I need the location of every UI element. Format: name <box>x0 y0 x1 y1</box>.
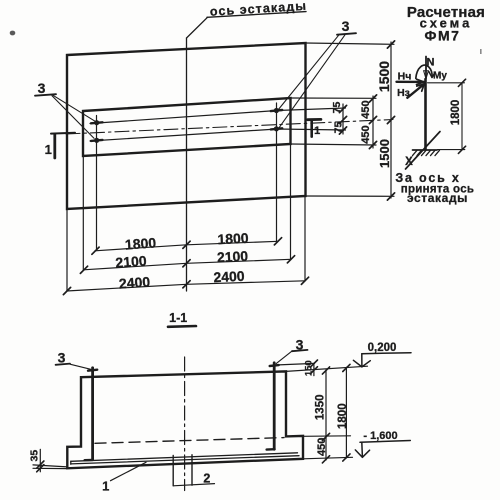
svg-text:Мy: Мy <box>433 71 447 82</box>
svg-text:1: 1 <box>102 479 109 494</box>
svg-text:1800: 1800 <box>450 100 462 126</box>
anchor bolt right <box>273 363 276 449</box>
svg-text:2: 2 <box>203 471 210 485</box>
svg-text:450: 450 <box>316 438 328 456</box>
svg-text:1800: 1800 <box>217 230 249 248</box>
section outline <box>67 371 303 468</box>
moment My arrow <box>416 65 432 78</box>
scheme X axis line <box>406 132 441 170</box>
dimension line 2400+2400 <box>67 281 306 291</box>
svg-text:2100: 2100 <box>217 248 249 266</box>
extension plan top to right dims <box>306 43 395 44</box>
dimension line 1800+1800 <box>95 241 278 251</box>
section mark 1 right <box>308 118 321 121</box>
dimension line 1350+450 <box>325 370 327 460</box>
anchor cross left lower <box>91 140 103 141</box>
extension band bottom to right dims <box>291 144 377 145</box>
anchor row line lower <box>90 129 346 141</box>
plan horizontal dash-dot center line <box>66 120 393 135</box>
plan outer rectangle <box>67 43 306 209</box>
anchor cross left upper <box>91 122 103 123</box>
svg-text:1800: 1800 <box>124 234 156 252</box>
extension line band right <box>290 144 292 260</box>
detail 2 vertical right <box>191 455 193 485</box>
scheme column <box>424 79 427 149</box>
svg-text:1800: 1800 <box>337 403 349 429</box>
svg-text:150: 150 <box>304 360 315 376</box>
svg-text:75: 75 <box>333 122 345 134</box>
svg-text:450: 450 <box>360 125 372 143</box>
section dashed ground line <box>95 438 284 444</box>
dimension line 1800 section <box>345 367 347 458</box>
faint scan mark right <box>480 49 482 54</box>
scan smudge top-left <box>10 31 16 36</box>
plank layer lower <box>71 456 299 464</box>
svg-text:ось эстакады: ось эстакады <box>209 0 307 19</box>
dimension line 75+75 <box>342 104 344 134</box>
svg-text:35: 35 <box>28 450 40 462</box>
plan center vertical axis line <box>186 38 188 291</box>
svg-text:1500: 1500 <box>377 139 392 168</box>
detail 2 vertical left <box>172 456 174 486</box>
svg-text:75: 75 <box>331 102 343 114</box>
svg-text:3: 3 <box>58 350 66 366</box>
svg-text:2100: 2100 <box>115 252 147 270</box>
axis label underline <box>207 12 306 18</box>
extension line anchor left <box>96 116 98 251</box>
scheme dim 1800 <box>428 82 465 84</box>
axis label leader <box>187 17 208 38</box>
extension slab top right <box>303 435 351 438</box>
svg-text:X: X <box>405 156 413 168</box>
svg-text:2400: 2400 <box>118 273 150 291</box>
anchor cross right upper <box>271 110 282 111</box>
svg-text:1: 1 <box>314 125 320 137</box>
extension line rect right <box>304 196 306 281</box>
detail 2 bottom connector and label leader <box>173 484 214 486</box>
dimension line 2100+2100 <box>84 259 292 270</box>
section mark 1 left <box>51 132 75 135</box>
section center dash-dot line <box>184 357 186 491</box>
extension plan bottom to right dims <box>306 195 395 197</box>
extension slab bottom right <box>303 457 353 459</box>
scheme ground hatch <box>413 149 438 151</box>
plank layer upper <box>71 453 298 462</box>
extension line rect left <box>66 209 68 291</box>
svg-text:3: 3 <box>38 80 46 96</box>
extension band top to right dims <box>291 97 377 99</box>
dimension line 150 <box>313 363 315 375</box>
svg-text:3: 3 <box>342 18 350 34</box>
svg-text:1350: 1350 <box>315 395 327 421</box>
anchor cross right lower <box>271 128 282 129</box>
svg-text:ФМ7: ФМ7 <box>425 28 461 44</box>
force N arrow <box>425 57 427 79</box>
extension line band left <box>82 156 84 270</box>
svg-text:2400: 2400 <box>213 268 245 286</box>
svg-text:1500: 1500 <box>376 61 392 92</box>
anchor bolt left <box>91 368 94 460</box>
plank left cap <box>70 461 72 464</box>
svg-text:1: 1 <box>45 142 52 157</box>
svg-text:450: 450 <box>360 100 372 118</box>
svg-text:1-1: 1-1 <box>169 311 187 325</box>
extension line anchor right <box>276 103 278 242</box>
extension bolt top right <box>279 363 315 365</box>
svg-text:эстакады: эстакады <box>407 191 468 205</box>
dimension line 450+450 <box>372 96 374 148</box>
plan inner band rectangle <box>83 98 291 156</box>
extension wall top right <box>286 366 368 371</box>
dimension line 1500+1500 <box>390 42 392 198</box>
anchor row line upper <box>90 108 346 124</box>
